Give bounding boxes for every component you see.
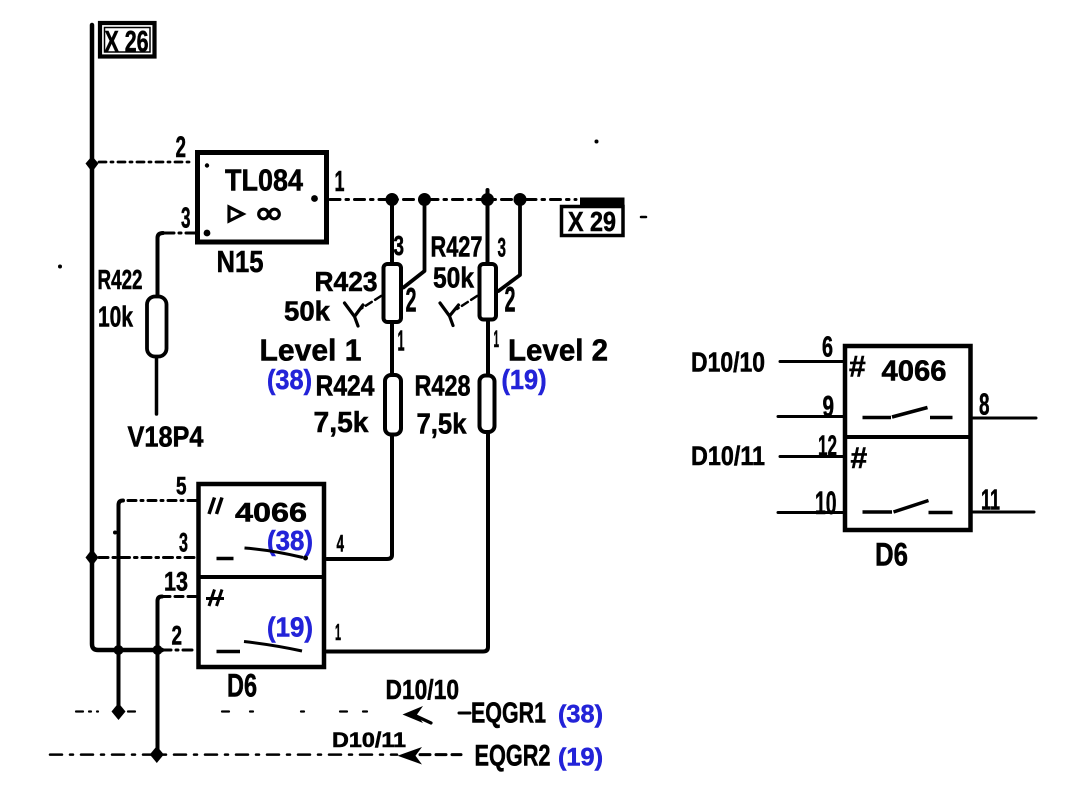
svg-text:50k: 50k bbox=[284, 296, 330, 327]
svg-text:1: 1 bbox=[494, 326, 500, 353]
svg-text:6: 6 bbox=[822, 332, 833, 364]
svg-text:9: 9 bbox=[823, 391, 835, 424]
svg-text:(38): (38) bbox=[267, 364, 312, 395]
svg-text:5: 5 bbox=[176, 473, 187, 501]
svg-text:R428: R428 bbox=[415, 371, 471, 403]
svg-text:#: # bbox=[849, 351, 866, 384]
svg-text:10k: 10k bbox=[98, 302, 134, 334]
svg-text:3: 3 bbox=[179, 528, 188, 558]
svg-text:(19): (19) bbox=[267, 612, 313, 643]
svg-text:1: 1 bbox=[335, 619, 341, 645]
svg-text:2: 2 bbox=[406, 282, 417, 320]
svg-text:D10/10: D10/10 bbox=[691, 347, 765, 378]
svg-text:R422: R422 bbox=[98, 264, 143, 295]
svg-text:10: 10 bbox=[815, 485, 837, 521]
svg-text:4066: 4066 bbox=[235, 498, 307, 528]
svg-text:N15: N15 bbox=[217, 244, 264, 279]
svg-text:11: 11 bbox=[981, 485, 1000, 517]
svg-text:2: 2 bbox=[505, 281, 516, 320]
svg-text:X 29: X 29 bbox=[568, 206, 616, 237]
svg-text:13: 13 bbox=[164, 567, 188, 597]
svg-text:1: 1 bbox=[398, 326, 405, 358]
svg-text:8: 8 bbox=[979, 387, 990, 422]
svg-text:TL084: TL084 bbox=[225, 163, 304, 198]
svg-text:R424: R424 bbox=[316, 371, 375, 403]
svg-text:Level 2: Level 2 bbox=[508, 333, 608, 368]
svg-text:X 26: X 26 bbox=[105, 26, 149, 59]
svg-text:R423: R423 bbox=[315, 266, 378, 297]
svg-text:R427: R427 bbox=[431, 232, 483, 264]
svg-text:(19): (19) bbox=[558, 744, 603, 772]
svg-text:4: 4 bbox=[337, 531, 345, 558]
svg-text:3: 3 bbox=[394, 230, 405, 261]
svg-text:D6: D6 bbox=[227, 668, 257, 704]
svg-text:EQGR2: EQGR2 bbox=[475, 740, 551, 773]
svg-text:D6: D6 bbox=[875, 537, 908, 573]
svg-text:3: 3 bbox=[498, 233, 507, 263]
svg-text:7,5k: 7,5k bbox=[417, 409, 468, 441]
svg-text:1: 1 bbox=[335, 166, 345, 198]
svg-text:7,5k: 7,5k bbox=[314, 407, 370, 439]
svg-text:V18P4: V18P4 bbox=[128, 422, 204, 454]
svg-text:4066: 4066 bbox=[882, 356, 947, 388]
svg-text:2: 2 bbox=[176, 131, 187, 164]
svg-text:Level 1: Level 1 bbox=[260, 333, 362, 368]
svg-text:D10/10: D10/10 bbox=[386, 674, 460, 705]
svg-text:(19): (19) bbox=[502, 364, 547, 395]
svg-text:(38): (38) bbox=[558, 701, 603, 729]
svg-text:EQGR1: EQGR1 bbox=[471, 698, 546, 730]
svg-text:2: 2 bbox=[172, 621, 183, 651]
svg-text:50k: 50k bbox=[433, 263, 475, 295]
svg-text:D10/11: D10/11 bbox=[691, 441, 765, 471]
svg-text:#: # bbox=[851, 442, 868, 475]
svg-text:D10/11: D10/11 bbox=[332, 729, 406, 752]
svg-text:12: 12 bbox=[818, 431, 837, 463]
svg-text:3: 3 bbox=[181, 203, 191, 235]
